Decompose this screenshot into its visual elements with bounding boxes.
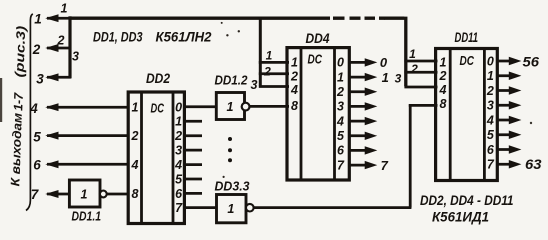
wire DD3.3 out bottom run: [254, 206, 412, 209]
wire stub DD2 out1: [184, 120, 202, 123]
svg-text:7: 7: [337, 158, 345, 172]
wire: DD4 pin2: [259, 72, 289, 75]
svg-text:1: 1: [337, 70, 344, 84]
svg-text:1: 1: [227, 100, 234, 114]
svg-text:6: 6: [337, 144, 345, 158]
svg-text:4: 4: [290, 83, 298, 97]
wire stub DD2 out2: [184, 134, 202, 137]
svg-text:7: 7: [381, 158, 389, 173]
wire DD1.2 out to DD4 pin8: [250, 105, 290, 108]
svg-text:56: 56: [523, 54, 540, 70]
wire stub DD2 out5: [184, 178, 202, 181]
inverter DD1.2: [216, 93, 244, 120]
svg-text:8: 8: [291, 99, 298, 113]
svg-text:0: 0: [175, 100, 182, 114]
wire 5 to DD2 pin2 with arrow: [47, 134, 128, 137]
wire: top bus dashed section: [333, 17, 385, 20]
svg-text:4: 4: [131, 158, 139, 172]
svg-text:7: 7: [487, 158, 495, 172]
svg-text:2: 2: [410, 62, 418, 76]
svg-text:8: 8: [440, 97, 447, 111]
svg-text:2: 2: [439, 69, 447, 83]
svg-text:DD2: DD2: [146, 71, 170, 86]
svg-text:7: 7: [175, 201, 183, 215]
svg-text:DC: DC: [151, 101, 165, 115]
svg-text:63: 63: [525, 156, 542, 172]
svg-text:3: 3: [72, 49, 79, 63]
svg-text:0: 0: [487, 54, 494, 68]
svg-text:4: 4: [439, 83, 447, 97]
svg-text:3: 3: [36, 71, 44, 86]
wire stub DD2 out4: [184, 163, 202, 166]
svg-text:4: 4: [336, 114, 344, 128]
wire: DD11 pin8 from riser: [409, 104, 438, 107]
inverter DD3.3: [217, 195, 247, 223]
svg-text:2: 2: [336, 85, 344, 99]
svg-text:5: 5: [175, 172, 183, 186]
svg-text:DD1, DD3: DD1, DD3: [93, 29, 143, 44]
svg-text:4: 4: [174, 158, 182, 172]
svg-text:DD11: DD11: [455, 30, 479, 45]
svg-text:6: 6: [33, 157, 41, 172]
svg-text:1: 1: [291, 56, 298, 70]
svg-text:1-7: 1-7: [11, 92, 26, 112]
inverter DD1.1: [69, 180, 100, 207]
decoder DD2: [128, 92, 184, 224]
svg-text:5: 5: [337, 129, 345, 143]
svg-text:1: 1: [440, 56, 447, 70]
svg-text:3: 3: [251, 78, 258, 92]
svg-text:2: 2: [131, 129, 139, 143]
svg-text:2: 2: [263, 64, 271, 78]
wire riser to DD11 pin8: [409, 104, 412, 207]
svg-text:К561ИД1: К561ИД1: [432, 208, 489, 224]
wire stub DD2 out6: [184, 192, 202, 195]
svg-text:5: 5: [487, 128, 495, 142]
svg-text:4: 4: [486, 113, 494, 127]
wire: DD4 pin4: [259, 85, 289, 88]
DD11 output arrows: [497, 58, 520, 168]
wire DD2 out0 to DD1.2: [184, 105, 216, 108]
svg-text:DD1.2: DD1.2: [215, 73, 248, 87]
wire 6 to DD2 pin4 with arrow: [47, 163, 128, 166]
decoder DD11: [436, 49, 498, 181]
svg-text:К561ЛН2: К561ЛН2: [156, 30, 212, 45]
svg-text:1: 1: [266, 49, 273, 63]
svg-text:0: 0: [380, 55, 388, 70]
svg-text:8: 8: [132, 187, 139, 201]
svg-text:6: 6: [175, 187, 183, 201]
svg-text:1: 1: [132, 101, 139, 115]
wire: left bus drop: [68, 16, 71, 78]
svg-text:0: 0: [337, 56, 344, 70]
svg-text:6: 6: [487, 143, 495, 157]
ellipsis dots: [228, 137, 232, 141]
svg-text:DD3.3: DD3.3: [215, 180, 250, 194]
wire: top bus right + DD11 drop: [384, 17, 406, 87]
svg-text:DD1.1: DD1.1: [72, 210, 102, 224]
wire: DD11 pin1: [404, 60, 437, 63]
wire: DD11 pin4: [404, 86, 437, 89]
wire 1 with arrow: [47, 17, 70, 20]
svg-text:(рис.3): (рис.3): [13, 26, 29, 78]
svg-text:1: 1: [34, 12, 42, 27]
wire 7 to DD1.1 input with arrow: [47, 193, 69, 196]
wire DD2 out7 to DD3.3: [184, 206, 217, 209]
svg-text:2: 2: [174, 129, 182, 143]
decoder DD4: [287, 48, 349, 180]
svg-text:DD2, DD4 - DD11: DD2, DD4 - DD11: [420, 193, 514, 208]
svg-text:3: 3: [395, 72, 402, 86]
svg-text:2: 2: [32, 42, 41, 57]
svg-text:3: 3: [175, 144, 182, 158]
svg-text:DC: DC: [460, 54, 475, 68]
svg-text:1: 1: [61, 2, 68, 16]
svg-text:2: 2: [290, 69, 298, 83]
svg-text:К выходам: К выходам: [8, 113, 25, 187]
svg-text:2: 2: [486, 84, 494, 98]
svg-text:3: 3: [337, 100, 344, 114]
svg-text:3: 3: [487, 99, 494, 113]
wire: DD4 pin1: [259, 61, 289, 64]
svg-text:5: 5: [33, 129, 41, 144]
svg-text:1: 1: [175, 115, 182, 129]
svg-text:4: 4: [29, 101, 38, 116]
scan specks: [223, 176, 225, 178]
svg-text:1: 1: [487, 69, 494, 83]
svg-text:1: 1: [227, 202, 234, 216]
svg-text:2: 2: [57, 34, 65, 48]
svg-text:DC: DC: [308, 53, 323, 67]
left bracket: [26, 14, 33, 211]
wire 3 with arrow: [47, 76, 71, 79]
wire stub DD2 out3: [184, 149, 202, 152]
wire 2 with arrow: [47, 47, 71, 50]
wire: top bus solid: [69, 17, 331, 20]
svg-text:DD4: DD4: [306, 31, 330, 46]
wire 4 to DD2 pin1 with arrow: [47, 106, 128, 109]
svg-text:1: 1: [382, 70, 389, 85]
svg-text:1: 1: [81, 187, 88, 201]
wire DD1.1 output to DD2 pin8: [107, 193, 128, 196]
wire: DD4 bus drop: [259, 17, 262, 86]
wire: DD11 pin2: [404, 71, 437, 74]
svg-text:1: 1: [409, 47, 416, 61]
DD4 output arrows: [349, 59, 376, 169]
